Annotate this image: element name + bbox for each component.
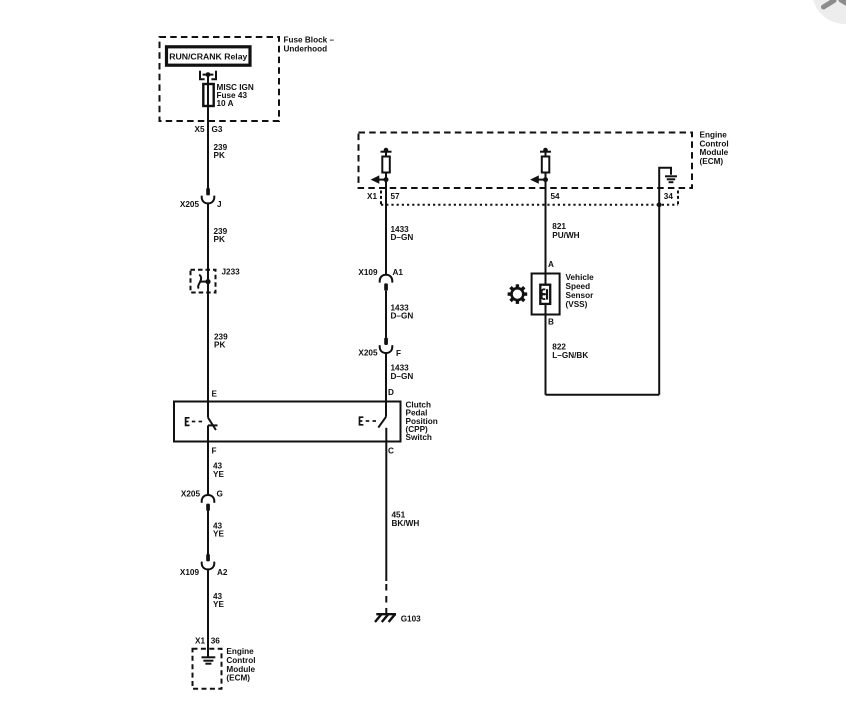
ui corner button (812, 0, 846, 24)
VSS label (566, 273, 595, 309)
svg-text:J233: J233 (222, 267, 241, 276)
connector X205 J (206, 188, 210, 195)
svg-text:X205: X205 (181, 490, 201, 499)
wire label 239 PK (214, 143, 228, 160)
svg-text:(ECM): (ECM) (700, 157, 724, 166)
svg-text:Sensor: Sensor (566, 291, 595, 300)
fuse MISC IGN Fuse 43 10A (203, 84, 213, 106)
svg-text:Switch: Switch (406, 433, 432, 442)
svg-text:YE: YE (213, 470, 224, 479)
svg-text:822: 822 (552, 342, 566, 351)
switch blade E-F (closed) (208, 418, 218, 430)
svg-text:PK: PK (214, 235, 225, 244)
wire F out of box (207, 425, 209, 495)
wire label 239 PK (214, 332, 228, 349)
svg-text:YE: YE (213, 600, 224, 609)
relay RUN/CRANK box (167, 47, 251, 65)
svg-text:X5: X5 (194, 125, 204, 134)
svg-text:34: 34 (664, 192, 674, 201)
connector X205 G (202, 495, 215, 503)
svg-text:A1: A1 (393, 268, 404, 277)
CPP switch label (406, 400, 438, 442)
wire C to G103 (385, 442, 387, 582)
resistor pullup pin57 (375, 152, 392, 180)
wire G to A2 (207, 511, 209, 554)
dashed wire to ground (385, 584, 387, 614)
wire A1 to X205 F (385, 291, 387, 338)
svg-text:Vehicle: Vehicle (566, 273, 595, 282)
svg-text:G: G (217, 490, 223, 499)
wire label 43 YE (213, 521, 224, 538)
wire label 43 YE (213, 462, 224, 479)
svg-text:E: E (212, 389, 218, 398)
ground G103 (375, 614, 396, 622)
wire label 451 BK/WH (392, 511, 420, 528)
VSS box (532, 274, 560, 315)
fuse block label (284, 36, 335, 54)
svg-text:10 A: 10 A (217, 99, 234, 108)
svg-text:B: B (548, 318, 554, 327)
fuse holder socket (200, 71, 216, 79)
svg-text:D–GN: D–GN (391, 312, 414, 321)
wire X205 J to J233 (207, 203, 209, 292)
svg-text:X109: X109 (180, 568, 200, 577)
svg-text:RUN/CRANK Relay: RUN/CRANK Relay (169, 52, 247, 62)
svg-text:X1: X1 (195, 636, 205, 645)
node X5 / G3 (194, 125, 222, 134)
svg-text:X109: X109 (358, 268, 378, 277)
svg-text:X205: X205 (180, 200, 200, 209)
wire label 821 PU/WH (552, 222, 579, 240)
svg-text:D–GN: D–GN (391, 233, 414, 242)
ECM dashed box top (359, 133, 693, 189)
svg-text:(ECM): (ECM) (226, 674, 250, 683)
svg-text:A2: A2 (217, 568, 228, 577)
resistor pullup pin54 (534, 152, 551, 180)
svg-text:36: 36 (211, 636, 221, 645)
fuse block - underhood dashed box (160, 37, 280, 121)
svg-text:Engine: Engine (700, 131, 728, 140)
ECM internal ground pin34 (659, 168, 677, 189)
svg-text:L–GN/BK: L–GN/BK (552, 351, 588, 360)
svg-text:54: 54 (551, 192, 561, 201)
svg-text:F: F (212, 447, 217, 456)
svg-text:(VSS): (VSS) (566, 300, 588, 309)
wire F to CPP switch (385, 353, 387, 417)
svg-text:A: A (548, 260, 554, 269)
svg-text:X1: X1 (367, 192, 377, 201)
ECM label bottom (226, 647, 255, 682)
svg-text:PU/WH: PU/WH (552, 231, 579, 240)
svg-text:F: F (396, 349, 401, 358)
junction at pin34 wire (657, 202, 662, 207)
actuator glyph right (360, 417, 377, 425)
svg-text:G103: G103 (401, 614, 421, 623)
svg-text:Underhood: Underhood (284, 44, 328, 53)
svg-text:C: C (388, 447, 394, 456)
wire label 1433 D-GN (391, 364, 414, 381)
node X1 / 36 (195, 636, 220, 645)
gear icon (508, 284, 528, 304)
svg-text:Module: Module (700, 148, 729, 157)
connector X109 A2 (206, 554, 210, 561)
wire J233 to CPP switch (207, 293, 209, 418)
svg-text:YE: YE (213, 530, 224, 539)
connector strip X1 row (380, 191, 382, 206)
wire relay to fuse to X205 J (207, 75, 209, 189)
VSS inner sensor element (540, 285, 550, 304)
svg-text:Control: Control (226, 656, 255, 665)
ECM ground dashed box (193, 649, 222, 689)
svg-text:821: 821 (552, 222, 566, 231)
splice J233 (191, 270, 216, 293)
wire pin57 to X109 A1 (385, 180, 387, 276)
actuator glyph left (186, 418, 203, 426)
ground symbol in ECM (202, 657, 216, 663)
wire label 239 PK (214, 227, 228, 244)
svg-text:X205: X205 (358, 349, 378, 358)
svg-text:57: 57 (391, 192, 401, 201)
ECM label top (700, 131, 729, 166)
svg-text:J: J (217, 200, 222, 209)
wire A2 to ECM ground (207, 569, 209, 656)
wire label 822 L-GN/BK (552, 342, 588, 360)
svg-text:Engine: Engine (226, 647, 254, 656)
wire label 43 YE (213, 592, 224, 609)
wire label 1433 D-GN (391, 225, 414, 242)
CPP switch box (174, 402, 401, 442)
wire VSS B to pin34 (546, 394, 660, 396)
svg-text:G3: G3 (212, 125, 223, 134)
connector X109 A1 (380, 275, 393, 283)
connector X205 F (384, 338, 388, 345)
svg-text:Module: Module (226, 665, 255, 674)
svg-text:Control: Control (700, 139, 729, 148)
wire pin54 to VSS (545, 180, 547, 274)
svg-text:Speed: Speed (566, 282, 591, 291)
svg-text:PK: PK (214, 341, 225, 350)
wire label 1433 D-GN (391, 303, 414, 320)
svg-text:BK/WH: BK/WH (392, 519, 420, 528)
svg-text:D: D (388, 388, 394, 397)
svg-text:D–GN: D–GN (391, 372, 414, 381)
switch blade D-C (open) (378, 417, 386, 428)
svg-text:PK: PK (214, 151, 225, 160)
svg-text:Fuse Block –: Fuse Block – (284, 36, 335, 45)
